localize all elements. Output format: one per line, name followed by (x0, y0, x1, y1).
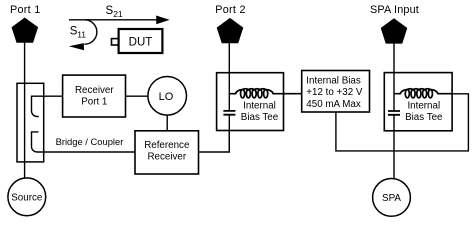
S11 label (70, 26, 86, 40)
svg-text:LO: LO (159, 91, 174, 103)
inductor L1 (229, 89, 301, 94)
SPA circle (373, 179, 411, 217)
bridge/coupler outline box (17, 83, 44, 162)
svg-text:Receiver: Receiver (75, 85, 114, 96)
capacitor C1 (223, 111, 235, 115)
svg-text:Port 1: Port 1 (10, 4, 41, 16)
wire SPA Input to bias tee 2 (393, 43, 395, 110)
capacitor C2 (388, 111, 400, 115)
DUT box (119, 29, 163, 53)
svg-text:Reference: Reference (144, 140, 190, 151)
Port 2 connector pentagon (217, 19, 242, 43)
svg-text:Internal: Internal (243, 101, 276, 112)
wire below capacitor C1 (228, 115, 230, 152)
wire Receiver Port 1 to LO (126, 95, 148, 97)
Port 1 connector pentagon (12, 18, 37, 42)
wire Port 2 to bias tee 1 (228, 43, 230, 111)
LO circle (148, 77, 187, 116)
bias tee 2 box (384, 73, 452, 131)
box Receiver Port 1 (63, 75, 126, 117)
inductor L2 (394, 89, 452, 94)
svg-text:Port 1: Port 1 (81, 96, 107, 107)
DUT connector square (112, 39, 119, 45)
svg-text:DUT: DUT (129, 36, 153, 48)
box Reference Receiver (135, 131, 199, 174)
svg-text:Bias Tee: Bias Tee (405, 112, 443, 123)
SPA Input connector pentagon (381, 19, 406, 43)
wire LO to Reference Receiver (166, 115, 168, 131)
wire Reference Receiver to bias tee 1 (199, 131, 230, 153)
svg-text:Receiver: Receiver (147, 152, 186, 163)
S21 label (106, 5, 123, 19)
coupler hook 2 to Reference Receiver (32, 132, 136, 152)
wire Port 1 down to Source (24, 43, 26, 179)
S11 curved arrow (84, 20, 97, 44)
wire Internal Bias to bias tee 2 inductor (336, 94, 469, 151)
svg-text:Bias Tee: Bias Tee (241, 112, 279, 123)
coupler hook 1 to Receiver Port 1 (32, 96, 63, 116)
svg-text:Internal: Internal (407, 101, 440, 112)
svg-text:Source: Source (11, 192, 43, 203)
bias tee 1 box (217, 73, 284, 131)
svg-text:Port 2: Port 2 (215, 4, 246, 16)
Source circle (8, 178, 46, 216)
svg-text:21: 21 (113, 9, 123, 19)
svg-text:+12 to +32 V: +12 to +32 V (306, 87, 363, 98)
svg-text:Internal Bias: Internal Bias (306, 76, 361, 87)
svg-text:SPA Input: SPA Input (370, 4, 419, 16)
svg-text:11: 11 (77, 30, 86, 40)
wire below capacitor C2 to SPA (393, 115, 395, 178)
svg-text:Bridge / Coupler: Bridge / Coupler (56, 136, 124, 147)
box Internal Bias supply (302, 71, 370, 113)
svg-text:SPA: SPA (382, 193, 401, 204)
S21 arrow (69, 19, 157, 21)
svg-text:450 mA Max: 450 mA Max (306, 99, 361, 110)
